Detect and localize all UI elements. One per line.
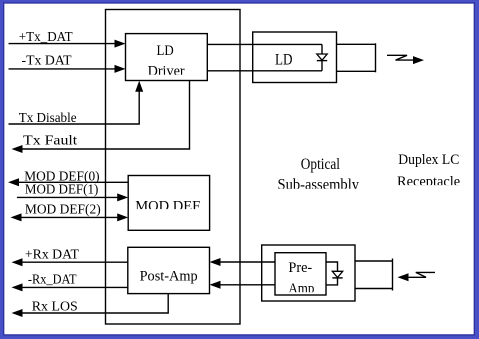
wire LD driver to TOSA upper bbox=[207, 43, 322, 45]
label +Rx DAT bbox=[25, 247, 79, 262]
label Tx Fault bbox=[23, 134, 77, 149]
svg-text:-Rx_DAT: -Rx_DAT bbox=[28, 273, 77, 288]
svg-text:MOD DEF(2): MOD DEF(2) bbox=[25, 203, 101, 218]
block Pre-Amp bbox=[275, 253, 326, 295]
Rx LC receptacle stub bbox=[355, 259, 393, 291]
label Amp (clipped) bbox=[288, 281, 314, 297]
wire Tx Disable bbox=[9, 81, 144, 124]
label Tx Disable bbox=[19, 111, 77, 126]
label -Rx_DAT bbox=[28, 273, 77, 288]
svg-text:LD: LD bbox=[275, 52, 293, 69]
label Sub-assembly (clipped) bbox=[278, 177, 360, 194]
TOSA outline bbox=[253, 32, 337, 83]
wire -Rx_DAT bbox=[12, 283, 128, 291]
svg-text:Tx Fault: Tx Fault bbox=[23, 134, 77, 149]
svg-text:Post-Amp: Post-Amp bbox=[140, 268, 198, 284]
block MOD DEF bbox=[128, 176, 209, 231]
svg-text:Pre-: Pre- bbox=[288, 260, 312, 276]
label LD (driver) bbox=[157, 43, 174, 59]
wire +Tx_DAT bbox=[9, 40, 126, 48]
label -Tx DAT bbox=[22, 54, 73, 69]
svg-text:Tx Disable: Tx Disable bbox=[19, 111, 77, 126]
label MOD DEF (clipped) bbox=[135, 199, 200, 215]
label LD (TOSA) bbox=[275, 52, 293, 69]
label Rx LOS (clipped) bbox=[32, 300, 78, 315]
wire Post-Amp to Pre-Amp lower bbox=[210, 281, 276, 289]
block Post-Amp bbox=[128, 247, 210, 293]
label Driver (clipped) bbox=[148, 64, 185, 80]
svg-text:+Rx DAT: +Rx DAT bbox=[25, 247, 79, 262]
wire +Rx DAT bbox=[12, 258, 128, 266]
label Duplex LC bbox=[398, 152, 459, 168]
wire MOD DEF(1) bbox=[17, 193, 128, 201]
svg-text:-Tx DAT: -Tx DAT bbox=[22, 54, 73, 69]
Tx optical signal arrow bbox=[387, 55, 424, 64]
wire MOD DEF(0) bbox=[8, 178, 128, 186]
svg-text:+Tx_DAT: +Tx_DAT bbox=[19, 30, 73, 45]
Rx optical signal arrow bbox=[398, 272, 436, 281]
wire MOD DEF(2) bbox=[11, 213, 129, 221]
svg-text:Duplex LC: Duplex LC bbox=[398, 152, 459, 168]
svg-text:Rx LOS: Rx LOS bbox=[32, 300, 78, 315]
laser diode D1 bbox=[317, 44, 327, 70]
wire LD driver to TOSA lower bbox=[207, 70, 322, 72]
label Optical bbox=[301, 156, 341, 173]
wire Tx Fault bbox=[12, 81, 190, 153]
label Receptacle (clipped) bbox=[397, 174, 460, 190]
svg-text:LD: LD bbox=[157, 43, 174, 59]
label MOD DEF(0) bbox=[24, 169, 100, 184]
svg-text:Optical: Optical bbox=[301, 156, 341, 173]
label +Tx_DAT bbox=[19, 30, 73, 45]
label Post-Amp bbox=[140, 268, 198, 284]
module outline rectangle bbox=[106, 10, 241, 325]
wire -Tx DAT bbox=[9, 65, 126, 73]
wire Post-Amp to Pre-Amp upper bbox=[210, 258, 276, 266]
label MOD DEF(2) bbox=[25, 203, 101, 218]
photodiode D2 branch bbox=[326, 262, 343, 285]
wire Rx LOS bbox=[12, 294, 169, 317]
label MOD DEF(1) bbox=[25, 183, 99, 198]
label Pre- bbox=[288, 260, 312, 276]
ROSA outline bbox=[262, 245, 355, 301]
Tx LC receptacle stub bbox=[337, 43, 376, 72]
block LD Driver bbox=[126, 34, 208, 81]
svg-text:MOD DEF(1): MOD DEF(1) bbox=[25, 183, 99, 198]
